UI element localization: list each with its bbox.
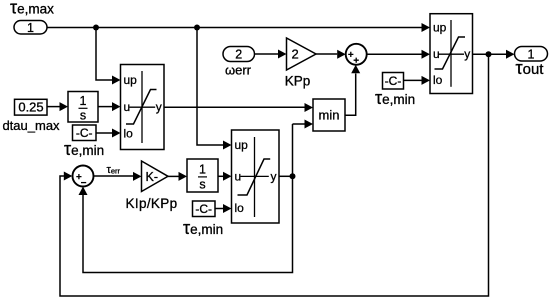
wire gain to integrator B	[168, 175, 179, 177]
wire 0.25 to integrator	[47, 106, 60, 108]
svg-text:lo: lo	[235, 201, 245, 215]
wire port2 to gain KPp	[255, 53, 279, 55]
svg-text:2: 2	[235, 48, 242, 62]
node D junction dot	[290, 173, 296, 179]
wire node D to min in2	[293, 123, 306, 125]
gain KPp	[287, 38, 317, 70]
svg-text:lo: lo	[124, 126, 134, 140]
wire -C- C to U2 lo	[215, 208, 223, 210]
svg-text:ωerr: ωerr	[225, 62, 252, 77]
node A junction dot	[93, 25, 99, 31]
svg-text:τout: τout	[516, 58, 545, 78]
svg-text:up: up	[235, 138, 249, 152]
svg-text:u: u	[124, 100, 131, 114]
wire top bus from In1 to Saturation U3 up	[48, 27, 423, 29]
saturation dynamic U1	[121, 65, 165, 150]
svg-text:τe,min: τe,min	[183, 218, 223, 238]
svg-text:lo: lo	[433, 73, 443, 87]
wire min to S1 bottom	[345, 74, 356, 116]
constant -C- C	[193, 201, 216, 217]
svg-text:y: y	[271, 170, 277, 184]
saturation dynamic U2	[232, 130, 280, 223]
sum S2	[73, 166, 94, 187]
svg-text:2: 2	[292, 47, 299, 62]
gain KIp/KPp	[142, 161, 169, 192]
arrowhead U2 up	[223, 141, 232, 150]
svg-text:s: s	[199, 177, 205, 191]
wire outer feedback loop from node C to S2	[60, 54, 489, 296]
node C junction dot	[486, 51, 492, 57]
wire node A down to U1 up	[96, 28, 113, 81]
input port 1	[14, 21, 47, 36]
svg-text:1: 1	[528, 47, 535, 61]
wire U3 y to Out1	[473, 53, 507, 55]
constant -C- A	[73, 125, 97, 141]
svg-text:-C-: -C-	[195, 202, 212, 216]
svg-text:1: 1	[27, 21, 34, 35]
svg-text:KIp/KPp: KIp/KPp	[126, 196, 178, 211]
constant -C- B	[383, 73, 404, 90]
input port 2	[223, 47, 255, 62]
svg-text:min: min	[319, 108, 340, 123]
wire node B down to U2 up	[197, 28, 224, 146]
saturation dynamic U3	[430, 14, 473, 94]
node B junction dot	[194, 25, 200, 31]
svg-text:s: s	[80, 109, 86, 123]
svg-text:dtau_max: dtau_max	[2, 118, 60, 133]
svg-text:τerr: τerr	[107, 164, 121, 176]
svg-text:u: u	[235, 170, 242, 184]
svg-text:0.25: 0.25	[18, 99, 43, 114]
min block	[313, 99, 345, 131]
wire -C- A to U1 lo	[96, 132, 113, 134]
svg-text:1: 1	[80, 94, 87, 108]
svg-text:τe,max: τe,max	[10, 0, 54, 18]
svg-text:y: y	[464, 47, 470, 61]
svg-text:up: up	[433, 21, 447, 35]
wire integrator A to U1 u	[98, 106, 113, 108]
wire U1 y to min in1	[164, 106, 305, 108]
svg-text:KPp: KPp	[285, 74, 311, 89]
output port 1	[515, 47, 548, 62]
wire U2 y to node D	[279, 175, 293, 177]
wire -C- B to U3 lo	[404, 79, 422, 81]
svg-text:-C-: -C-	[76, 126, 93, 140]
constant 0.25	[15, 99, 48, 115]
svg-text:y: y	[156, 100, 162, 114]
wire S2 to gain KIp/KPp	[94, 175, 134, 177]
svg-text:τe,min: τe,min	[375, 88, 415, 108]
integrator 1/s A	[68, 92, 98, 123]
svg-text:up: up	[124, 73, 138, 87]
sum S1	[346, 44, 367, 65]
wire S1 to U3 u	[367, 53, 422, 55]
svg-text:1: 1	[199, 163, 206, 177]
arrowhead U1 up	[112, 76, 121, 85]
wire integrator B to U2 u	[218, 175, 223, 177]
integrator 1/s B	[187, 159, 218, 192]
arrowhead U3 up	[422, 23, 431, 32]
svg-text:τe,min: τe,min	[64, 139, 104, 159]
wire KPp to sum S1	[316, 53, 337, 55]
wire inner feedback loop	[83, 124, 293, 273]
svg-text:K-: K-	[146, 170, 159, 184]
svg-text:-C-: -C-	[385, 74, 402, 88]
